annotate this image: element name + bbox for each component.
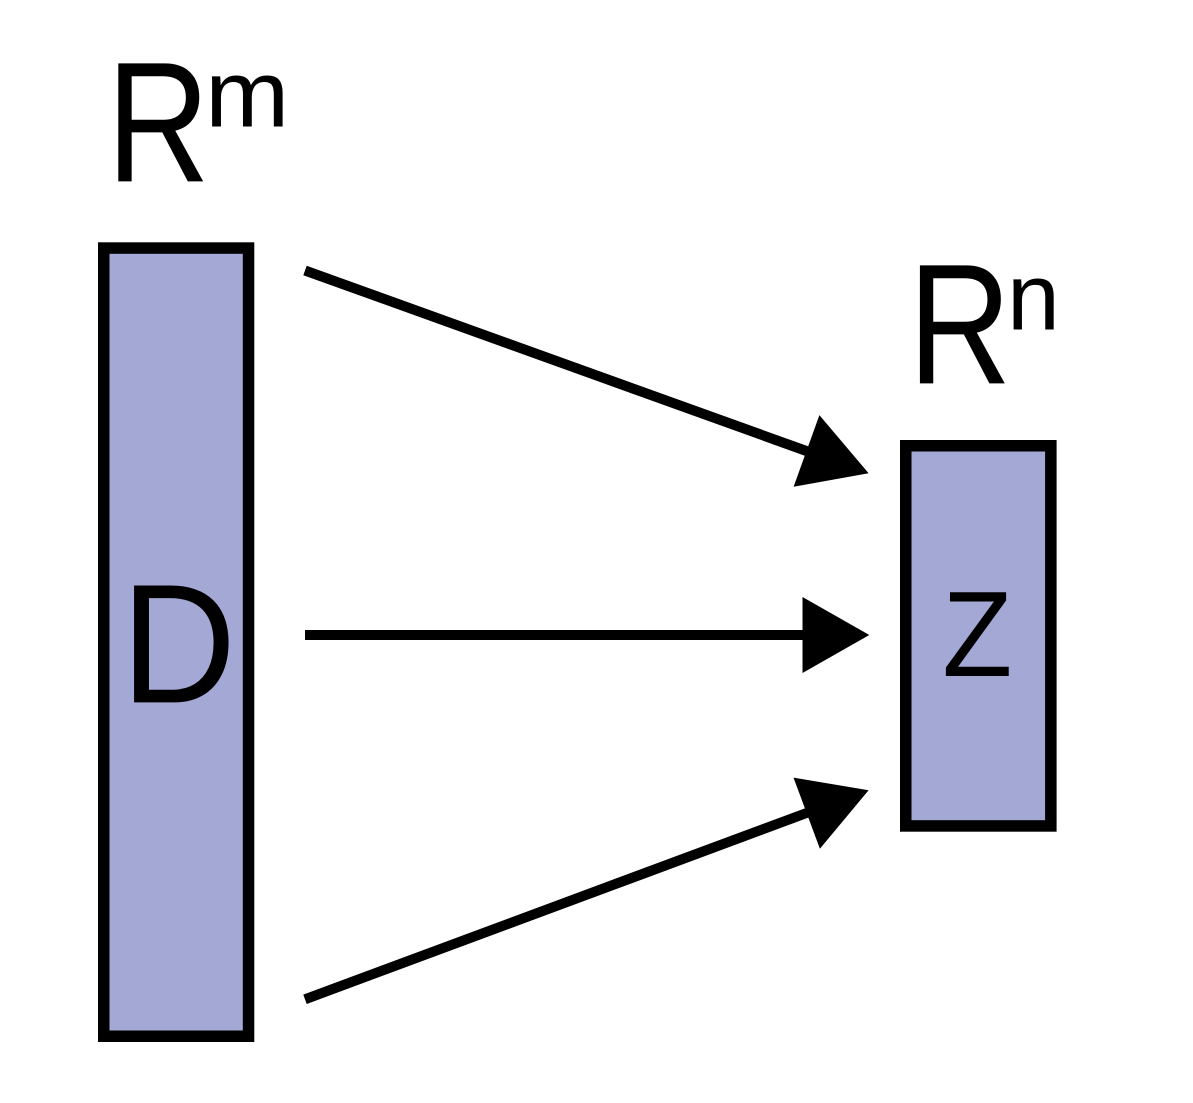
bottom arrow head xyxy=(794,778,869,849)
bottom arrow shaft xyxy=(305,811,812,999)
svg-text:R: R xyxy=(908,229,1011,420)
right rectangle Z (codomain R^n) xyxy=(906,446,1051,826)
svg-text:m: m xyxy=(205,40,289,147)
middle arrow head xyxy=(803,597,870,673)
label R^n : superscript n xyxy=(1007,244,1060,350)
svg-text:D: D xyxy=(121,549,236,739)
top arrow shaft xyxy=(305,271,812,454)
top arrow head xyxy=(794,415,869,487)
label R^n : R xyxy=(908,229,1011,420)
svg-text:n: n xyxy=(1007,244,1060,350)
svg-text:Z: Z xyxy=(942,567,1012,703)
label R^m : superscript m xyxy=(205,40,289,147)
left rectangle D (domain R^m) xyxy=(104,248,249,1036)
letter Z inside right rectangle xyxy=(942,567,1012,703)
label R^m : R xyxy=(107,27,210,218)
letter D inside left rectangle xyxy=(121,549,236,739)
middle arrow shaft xyxy=(305,630,808,640)
svg-text:R: R xyxy=(107,27,210,218)
